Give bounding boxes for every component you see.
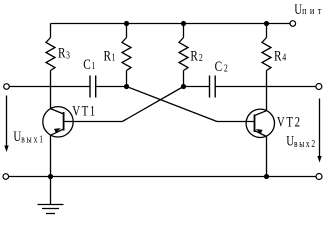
svg-text:R4: R4 <box>274 47 286 64</box>
capacitor C2 <box>210 76 216 98</box>
node: R2 top junction <box>181 21 186 26</box>
svg-text:R1: R1 <box>104 47 116 64</box>
resistor R1 <box>122 24 131 87</box>
svg-text:Uвых1: Uвых1 <box>13 129 44 145</box>
label C1 <box>83 55 95 72</box>
node: R1 bottom junction <box>124 84 129 89</box>
arrow: Uvyh2 output arrow <box>317 99 321 163</box>
transistor VT2 <box>217 87 275 177</box>
wire: cross-coupling diagonal R2 node to VT1 base <box>122 87 183 122</box>
wire: R2 bottom node to C2 <box>184 86 210 88</box>
arrow: Uvyh1 output arrow <box>4 96 8 153</box>
terminal: Upit supply terminal <box>290 21 296 27</box>
label VT2 <box>277 114 302 130</box>
wire: cross-coupling diagonal R1 node to VT2 base <box>127 87 218 122</box>
label R1 <box>104 47 116 64</box>
capacitor C1 <box>90 76 96 98</box>
label VT1 <box>72 103 96 119</box>
terminal: right output terminal (collector VT2) <box>316 84 322 90</box>
svg-text:VT1: VT1 <box>72 103 96 119</box>
transistor VT1 <box>43 87 123 177</box>
svg-text:C1: C1 <box>83 55 95 72</box>
wire: ground bottom rail <box>9 176 316 178</box>
svg-text:VT2: VT2 <box>277 114 302 130</box>
label Uvyh1 <box>13 129 44 145</box>
node: VT2 emitter junction <box>264 174 269 179</box>
resistor R3 <box>46 24 55 87</box>
wire: C2 to right output terminal <box>215 86 316 88</box>
svg-text:C2: C2 <box>215 57 228 75</box>
node: R1 top junction <box>124 21 129 26</box>
node: R2 bottom junction <box>181 84 186 89</box>
label C2 <box>215 57 228 75</box>
wire: +supply top rail <box>51 23 291 25</box>
terminal: bottom right terminal <box>316 174 322 180</box>
svg-text:Uпит: Uпит <box>294 1 324 17</box>
terminal: left output terminal (collector VT1) <box>4 84 10 90</box>
wire: left output to C1 <box>9 86 90 88</box>
label R2 <box>190 47 203 64</box>
resistor R4 <box>262 24 271 87</box>
svg-text:Uвых2: Uвых2 <box>286 133 317 149</box>
label R3 <box>58 44 70 62</box>
resistor R2 <box>179 24 188 87</box>
ground <box>38 177 64 214</box>
node: R4 top junction <box>264 21 269 26</box>
terminal: bottom left terminal <box>3 174 9 180</box>
wire: C1 to R1 bottom node <box>96 86 127 88</box>
label Uvyh2 <box>286 133 317 149</box>
svg-text:R2: R2 <box>190 47 203 64</box>
node: VT1 emitter junction <box>48 174 53 179</box>
svg-text:R3: R3 <box>58 44 70 62</box>
label Upit <box>294 1 324 17</box>
label R4 <box>274 47 286 64</box>
